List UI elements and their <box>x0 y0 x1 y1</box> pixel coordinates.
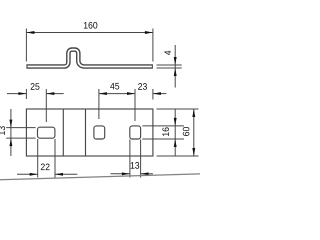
grey watermark line <box>0 174 200 180</box>
dimension 22 (left slot width) <box>17 139 77 178</box>
profile view: sheet cross-section with omega bump <box>26 50 152 67</box>
dimension 13 (right slot width, bottom) <box>111 140 153 178</box>
fold line left <box>62 109 64 156</box>
dimension 13 (left slot height) <box>6 109 35 156</box>
dimension 16 (right slot height) <box>142 110 184 157</box>
dimension 4 (plate thickness) <box>157 45 182 88</box>
dimension 160 (top) <box>26 29 152 62</box>
fold line right <box>85 109 87 156</box>
dimension 45 <box>99 89 135 121</box>
dimension 25 <box>7 89 64 122</box>
plan view: plate outline <box>26 109 152 156</box>
dimension 23 <box>153 89 167 100</box>
dimension 60 (plate height) <box>157 109 199 156</box>
slot 3 (right, 13x16) <box>130 126 141 139</box>
slot 1 (left, 22x13) <box>38 127 55 138</box>
slot 2 (middle, 13x16) <box>94 126 105 139</box>
